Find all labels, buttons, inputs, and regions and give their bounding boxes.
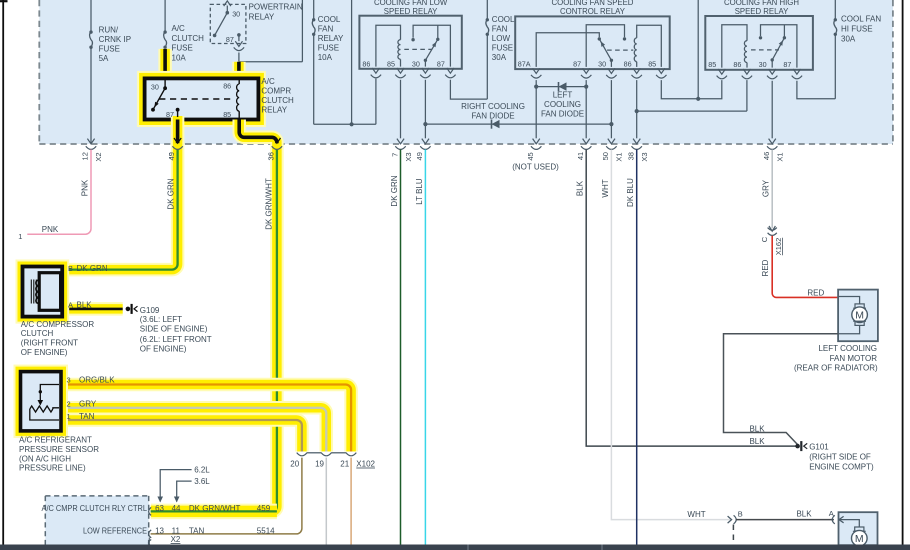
svg-text:85: 85 <box>708 60 716 69</box>
wire (hl) DK GRN pin 49 down to clutch pin B <box>62 150 178 270</box>
svg-text:DK GRN: DK GRN <box>166 178 175 209</box>
label A/C CLUTCH FUSE 10A <box>172 24 205 62</box>
wire GRY pin 46 to connector C X162 <box>771 150 773 229</box>
page corner mark top-left <box>0 0 8 2</box>
K2 title <box>374 0 448 16</box>
svg-text:(3.6L: LEFT: (3.6L: LEFT <box>140 315 182 324</box>
svg-text:10A: 10A <box>318 53 333 62</box>
page border left <box>2 0 4 545</box>
svg-text:(NOT USED): (NOT USED) <box>512 163 559 172</box>
svg-text:FAN: FAN <box>492 25 508 34</box>
svg-text:A/C: A/C <box>261 77 275 86</box>
svg-text:ENGINE COMPT): ENGINE COMPT) <box>809 462 874 471</box>
svg-text:DK GRN/WHT: DK GRN/WHT <box>189 504 241 513</box>
svg-text:(RIGHT FRONT: (RIGHT FRONT <box>21 339 78 348</box>
connector X102 cups and dashes <box>297 453 357 456</box>
label RIGHT COOLING FAN DIODE <box>461 102 525 120</box>
wire (hl) clutch pin A BLK to ground G109 <box>60 302 123 316</box>
sensor resistor to pin 2 <box>53 408 59 409</box>
svg-text:FUSE: FUSE <box>492 44 513 53</box>
K4 switch 30-87 <box>759 25 797 68</box>
pin number 46 / X1 <box>762 152 785 162</box>
svg-text:30: 30 <box>598 59 606 68</box>
left motor M symbol <box>852 304 868 326</box>
wire WHT pin 50 to connector B <box>611 150 730 520</box>
wire RED X162 to left cooling fan motor <box>772 236 838 298</box>
svg-text:FAN DIODE: FAN DIODE <box>471 111 514 120</box>
K4 linkage dashed <box>751 49 779 51</box>
svg-text:X102: X102 <box>356 460 375 469</box>
PCM row1 labels 63 44 DK GRN/WHT 459 <box>155 504 271 513</box>
svg-text:HI FUSE: HI FUSE <box>841 25 873 34</box>
svg-text:X2: X2 <box>94 152 103 161</box>
wire K4 30 exit to pin 46 X1 <box>771 81 773 139</box>
svg-text:X2: X2 <box>171 535 181 544</box>
svg-text:20: 20 <box>290 460 299 469</box>
label COOL FAN RELAY FUSE 10A <box>318 15 344 62</box>
svg-text:13: 13 <box>155 526 164 535</box>
relay K4 COOLING FAN HIGH SPEED RELAY box <box>705 16 813 70</box>
component LEFT COOLING FAN MOTOR box <box>838 290 878 342</box>
label COOL FAN HI FUSE 30A <box>841 15 881 44</box>
wire BLK left motor to ground G101 <box>724 334 839 445</box>
pin number 45 NOT USED <box>512 152 559 171</box>
connector exits at fuse block bottom edge <box>86 139 778 150</box>
K3 pin labels 87A 87 30 86 85 <box>518 59 656 68</box>
svg-text:RELAY: RELAY <box>249 12 275 21</box>
svg-text:TAN: TAN <box>189 526 205 535</box>
svg-text:CLUTCH: CLUTCH <box>172 34 205 43</box>
svg-text:COOL: COOL <box>492 15 515 24</box>
svg-text:M: M <box>855 310 864 322</box>
K4 coil between 85 and 86 <box>722 25 747 68</box>
K5 coil between 86 and 85 <box>237 80 240 119</box>
svg-text:FUSE: FUSE <box>318 44 339 53</box>
svg-text:G101: G101 <box>809 442 829 451</box>
svg-text:A: A <box>68 300 73 309</box>
X102 pin labels 20 19 21 <box>290 460 375 469</box>
svg-text:36: 36 <box>266 152 275 160</box>
svg-text:12: 12 <box>81 152 90 160</box>
exit arrow/cup over highlight at pin 49 <box>172 138 182 149</box>
svg-text:ORG/BLK: ORG/BLK <box>79 375 115 384</box>
pin label A BLK <box>68 300 92 309</box>
svg-text:87: 87 <box>437 59 445 68</box>
svg-text:2: 2 <box>67 400 71 409</box>
svg-text:FUSE: FUSE <box>172 44 193 53</box>
powertrain relay pin labels 30 87 <box>226 9 240 44</box>
wire K3 85 to K4 85 rail with feed junction <box>661 0 722 101</box>
label A/C COMPR CLUTCH RELAY <box>261 77 294 114</box>
svg-text:M: M <box>855 533 864 545</box>
svg-text:11: 11 <box>172 526 181 535</box>
svg-text:RUN/: RUN/ <box>99 26 119 35</box>
svg-text:CLUTCH: CLUTCH <box>261 96 294 105</box>
svg-text:DK GRN: DK GRN <box>390 175 399 206</box>
svg-text:30: 30 <box>412 59 420 68</box>
pin label 3 ORG/BLK <box>67 375 116 384</box>
svg-text:30: 30 <box>151 82 159 91</box>
K2 coil between 86 and 85 <box>376 25 401 66</box>
label LEFT COOLING FAN MOTOR (REAR OF RADIATOR) <box>794 344 878 372</box>
svg-text:PNK: PNK <box>80 179 89 196</box>
underhood fuse block dashed border <box>39 0 893 144</box>
svg-text:X3: X3 <box>640 152 649 161</box>
svg-text:85: 85 <box>223 110 231 119</box>
K5 switch blade 30-87 <box>151 80 167 112</box>
svg-text:WHT: WHT <box>601 179 610 197</box>
K4 title <box>724 0 799 16</box>
svg-text:RED: RED <box>761 259 770 276</box>
wire (hl) sensor pin 1 TAN to X102 pin 20 <box>59 420 302 452</box>
svg-text:49: 49 <box>415 152 424 160</box>
svg-text:10A: 10A <box>172 53 187 62</box>
connector B inline (arrow + cup) <box>728 515 737 524</box>
label G101 location <box>809 442 874 471</box>
K5 linkage dashed <box>159 98 232 100</box>
exit arrow/cup over highlight at pin 36 <box>272 138 282 149</box>
relay K5 A/C COMPR CLUTCH RELAY box (highlighted) <box>145 78 259 119</box>
svg-text:COMPR: COMPR <box>261 87 291 96</box>
sensor resistor to pin 1 <box>30 409 59 420</box>
svg-text:LOW REFERENCE: LOW REFERENCE <box>83 526 147 535</box>
relay K2 COOLING FAN LOW SPEED RELAY box <box>359 16 461 69</box>
wire BLK connector B to right motor pin A <box>736 519 834 521</box>
svg-text:LT BLU: LT BLU <box>415 178 424 205</box>
PCM edge cups <box>148 507 151 545</box>
svg-text:86: 86 <box>733 60 741 69</box>
connector A cup at motor box <box>832 515 835 524</box>
right motor M symbol (partial) <box>852 527 868 546</box>
svg-text:RELAY: RELAY <box>261 105 287 114</box>
svg-text:(RIGHT SIDE OF: (RIGHT SIDE OF <box>809 452 871 461</box>
label LEFT COOLING FAN DIODE <box>541 90 584 118</box>
K2 switch 30-87 <box>411 25 450 66</box>
svg-text:1: 1 <box>18 232 22 241</box>
K3 coil between 86 and 85 <box>634 25 661 67</box>
svg-text:3: 3 <box>67 375 71 384</box>
K5 pin labels 30 86 87 85 <box>151 82 231 119</box>
relay K1 POWERTRAIN RELAY (dashed) <box>210 4 246 43</box>
label POWERTRAIN RELAY <box>249 2 303 21</box>
svg-text:DK GRN/WHT: DK GRN/WHT <box>265 178 274 230</box>
svg-text:WHT: WHT <box>687 510 705 519</box>
svg-text:87: 87 <box>783 60 791 69</box>
svg-text:44: 44 <box>172 504 181 513</box>
component A/C COMPRESSOR CLUTCH (highlighted box) <box>23 267 63 317</box>
junction feed to low-relay 86 rail <box>350 0 354 126</box>
svg-text:COOLING: COOLING <box>544 100 581 109</box>
K3 linkage dashed <box>607 49 633 51</box>
svg-text:7: 7 <box>390 153 399 157</box>
svg-text:459: 459 <box>257 504 271 513</box>
wire K2 pin85 exit to pin 7 X3 <box>400 80 402 139</box>
fuse COOL FAN HI FUSE 30A <box>834 0 837 99</box>
right motor internal wiring with arrow <box>839 516 859 527</box>
diode LEFT COOLING FAN DIODE <box>536 82 588 91</box>
pin label 2 GRY <box>67 400 97 409</box>
component A/C REFRIGERANT PRESSURE SENSOR (highlighted box) <box>21 372 62 431</box>
clutch plates <box>31 280 36 304</box>
fuse A/C CLUTCH FUSE 10A <box>163 0 166 49</box>
relay K3 COOLING FAN SPEED CONTROL RELAY box <box>515 16 670 69</box>
pin label 1 TAN <box>67 412 95 421</box>
left motor internal wiring <box>838 297 860 334</box>
svg-text:49: 49 <box>167 152 176 160</box>
svg-text:30: 30 <box>759 60 767 69</box>
wire powertrain 87 junction to B+ feed <box>239 0 303 62</box>
label RUN/CRNK IP FUSE 5A <box>99 26 131 64</box>
svg-text:6.2L: 6.2L <box>194 465 210 474</box>
K3 pin arrows and connector cups <box>531 68 667 78</box>
wire (hl) A/C clutch fuse to K5 pin 30 <box>158 49 172 77</box>
svg-text:86: 86 <box>624 59 632 68</box>
svg-text:50: 50 <box>601 152 610 160</box>
svg-text:RIGHT COOLING: RIGHT COOLING <box>461 102 525 111</box>
wire (hl) K5 pin 85 exit to pin 36 <box>151 120 277 512</box>
svg-text:DK BLU: DK BLU <box>626 178 635 207</box>
svg-text:46: 46 <box>762 152 771 160</box>
svg-text:19: 19 <box>315 460 324 469</box>
svg-text:21: 21 <box>340 460 349 469</box>
underhood fuse block box fill <box>39 0 893 144</box>
wire GRY X102 pin 19 continues down <box>325 458 327 545</box>
svg-text:BLK: BLK <box>575 180 584 196</box>
pin number 7 / X3 <box>390 152 413 161</box>
svg-text:5514: 5514 <box>257 526 275 535</box>
svg-text:DK GRN: DK GRN <box>77 264 108 273</box>
K3 87 rail with open contact <box>586 25 626 67</box>
wire K2 pin30 exit to pin 49 <box>423 80 427 139</box>
svg-text:COOL: COOL <box>318 15 341 24</box>
svg-text:3.6L: 3.6L <box>194 477 210 486</box>
K2 pin labels 86 85 30 87 <box>362 59 445 68</box>
svg-text:OF ENGINE): OF ENGINE) <box>21 348 68 357</box>
svg-text:BLK: BLK <box>796 510 812 519</box>
svg-text:85: 85 <box>648 59 656 68</box>
clutch coil bumps <box>36 280 39 304</box>
svg-text:86: 86 <box>223 82 231 91</box>
svg-text:POWERTRAIN: POWERTRAIN <box>249 2 303 11</box>
wire cool fan relay fuse to low speed relay 86 <box>314 79 376 125</box>
pin number 50 / X1 <box>601 152 623 162</box>
ground G109 symbol <box>126 304 138 314</box>
svg-text:LEFT COOLING: LEFT COOLING <box>818 344 877 353</box>
svg-text:(ON A/C HIGH: (ON A/C HIGH <box>19 454 71 463</box>
powertrain relay pin 87 output <box>234 33 244 62</box>
wire K2 pin87 to cool fan low fuse <box>450 80 487 99</box>
K3 87A rail <box>536 33 601 67</box>
svg-text:86: 86 <box>362 59 370 68</box>
wire DK BLU pin 38 down off-page <box>636 150 638 550</box>
K5 pin 87 contact dot <box>176 108 180 117</box>
K2 pin arrows and connector cups <box>371 68 456 78</box>
svg-text:30A: 30A <box>841 35 856 44</box>
K4 pin arrows and connector cups <box>717 69 803 79</box>
svg-text:30: 30 <box>232 9 240 18</box>
svg-text:PRESSURE SENSOR: PRESSURE SENSOR <box>19 445 99 454</box>
wire (hl) powertrain 87 to K5 pin 86 <box>232 62 246 77</box>
svg-text:COOL FAN: COOL FAN <box>841 15 881 24</box>
diode RIGHT COOLING FAN DIODE <box>425 120 613 129</box>
wire DK GRN pin 7 X3 down off-page <box>400 150 402 545</box>
svg-text:45: 45 <box>526 152 535 160</box>
svg-text:BLK: BLK <box>749 437 765 446</box>
wire (hl) sensor pin 3 ORG/BLK to X102 pin 21 <box>59 385 351 452</box>
svg-text:87: 87 <box>573 59 581 68</box>
svg-text:1: 1 <box>67 412 71 421</box>
svg-text:(REAR OF RADIATOR): (REAR OF RADIATOR) <box>794 363 878 372</box>
callout 6.2L arrow to pin 63 <box>157 465 210 502</box>
taskbar separators <box>467 545 469 550</box>
component RIGHT COOLING FAN MOTOR box (partial) <box>839 512 878 545</box>
K4 pin labels 85 86 30 87 <box>708 60 791 69</box>
wire K3 86 exit and branch to K4 86 <box>635 80 747 138</box>
pin number 38 / X3 <box>627 152 649 162</box>
svg-text:G109: G109 <box>140 306 160 315</box>
svg-text:30A: 30A <box>492 53 507 62</box>
ground G101 symbol <box>795 441 807 451</box>
svg-text:87A: 87A <box>518 59 531 68</box>
svg-text:FAN: FAN <box>318 25 334 34</box>
page border right <box>902 0 904 545</box>
svg-text:LOW: LOW <box>492 34 511 43</box>
svg-text:63: 63 <box>155 504 164 513</box>
label A/C COMPRESSOR CLUTCH location <box>21 320 95 357</box>
svg-text:B: B <box>738 510 743 519</box>
K2 linkage dashed <box>404 48 432 50</box>
rotated labels C and X162 <box>760 236 783 255</box>
wire K3 87 exit to pin 41 <box>585 80 587 138</box>
dashed continuation below connector B <box>732 525 734 543</box>
label COOL FAN LOW FUSE 30A <box>492 15 515 62</box>
svg-text:RED: RED <box>807 288 824 297</box>
svg-text:CLUTCH: CLUTCH <box>21 329 54 338</box>
svg-text:FUSE: FUSE <box>99 45 120 54</box>
svg-text:SIDE OF ENGINE): SIDE OF ENGINE) <box>140 325 208 334</box>
pin number 12 / connector X2 <box>81 152 104 161</box>
K3 title <box>552 0 634 16</box>
svg-text:RELAY: RELAY <box>318 34 344 43</box>
svg-text:BLK: BLK <box>749 424 765 433</box>
svg-text:85: 85 <box>387 59 395 68</box>
svg-text:X1: X1 <box>776 152 785 161</box>
svg-text:SPEED RELAY: SPEED RELAY <box>384 7 438 16</box>
svg-text:GRY: GRY <box>79 400 97 409</box>
wire K3 87A exit to pin 45 (not used) <box>534 80 538 138</box>
pin label B DK GRN <box>68 264 108 273</box>
svg-text:OF ENGINE): OF ENGINE) <box>140 344 187 353</box>
svg-text:C: C <box>760 236 769 242</box>
svg-text:87: 87 <box>226 35 234 44</box>
svg-text:41: 41 <box>576 152 585 160</box>
wire LT BLU pin 49 down off-page <box>424 150 426 545</box>
clutch coil inner box <box>39 273 60 311</box>
wire (hl) K5 pin 87 exit to pin 49 <box>62 116 178 270</box>
svg-text:38: 38 <box>627 152 636 160</box>
svg-text:PRESSURE LINE): PRESSURE LINE) <box>19 464 86 473</box>
connector C X162 inline <box>768 226 777 235</box>
svg-text:CRNK IP: CRNK IP <box>99 35 131 44</box>
svg-text:PNK: PNK <box>42 225 59 234</box>
svg-text:87: 87 <box>166 110 174 119</box>
wire (hl) DK GRN/WHT into PCM pins 63/44 <box>151 504 277 520</box>
fuse COOL FAN LOW FUSE 30A <box>486 0 489 99</box>
svg-text:(6.2L: LEFT FRONT: (6.2L: LEFT FRONT <box>140 335 212 344</box>
svg-text:X3: X3 <box>404 152 413 161</box>
label G109 location <box>140 306 212 354</box>
PCM module box (A/C CMPR CLUTCH RLY CTRL / LOW REFERENCE) <box>45 496 148 545</box>
wire ORG/BLK X102 pin 21 continues down <box>350 458 352 545</box>
bottom taskbar <box>0 545 910 550</box>
PCM row2 labels 13 11 TAN 5514 <box>155 526 275 535</box>
powertrain relay switch blade 30-87 <box>213 11 229 37</box>
svg-text:X1: X1 <box>615 152 624 161</box>
sensor wiper arm from pin 3 <box>38 385 60 406</box>
wire PNK from pin 12 to net 1 <box>27 150 91 235</box>
callout 3.6L arrow to pin 44 <box>174 477 210 503</box>
fuse RUN/CRNK IP FUSE 5A <box>89 0 92 143</box>
svg-text:A/C CMPR CLUTCH RLY CTRL: A/C CMPR CLUTCH RLY CTRL <box>42 504 148 513</box>
powertrain relay pin 30 feed arrow <box>224 1 231 13</box>
svg-text:GRY: GRY <box>762 179 771 197</box>
svg-text:CONTROL RELAY: CONTROL RELAY <box>560 7 626 16</box>
wire K3 30 exit to pin 50 X1 <box>610 80 612 138</box>
wire TAN X102 pin 20 to PCM LOW REFERENCE <box>151 458 302 534</box>
svg-text:B: B <box>68 264 73 273</box>
svg-text:A/C REFRIGERANT: A/C REFRIGERANT <box>19 436 92 445</box>
sensor resistor element <box>30 406 53 412</box>
svg-text:FAN DIODE: FAN DIODE <box>541 110 584 119</box>
svg-text:SPEED RELAY: SPEED RELAY <box>735 7 789 16</box>
wire BLK pin 41 to ground G101 <box>586 150 797 447</box>
svg-text:A/C COMPRESSOR: A/C COMPRESSOR <box>21 320 95 329</box>
svg-text:X162: X162 <box>774 238 783 256</box>
K3 switch blade 30-87A <box>599 39 613 67</box>
wire (hl) sensor pin 2 GRY to X102 pin 19 <box>59 408 326 452</box>
svg-text:FAN MOTOR: FAN MOTOR <box>830 354 878 363</box>
svg-text:BLK: BLK <box>77 300 93 309</box>
label A/C REFRIGERANT PRESSURE SENSOR location <box>19 436 99 473</box>
wire K4 87 to cool fan hi fuse <box>797 81 835 99</box>
svg-text:LEFT: LEFT <box>553 90 573 99</box>
svg-text:5A: 5A <box>99 54 109 63</box>
svg-text:A/C: A/C <box>172 24 186 33</box>
fuse COOL FAN RELAY FUSE 10A <box>312 0 315 124</box>
svg-text:TAN: TAN <box>79 412 95 421</box>
wire (hl) DK GRN/WHT pin 36 down to PCM <box>151 150 277 511</box>
